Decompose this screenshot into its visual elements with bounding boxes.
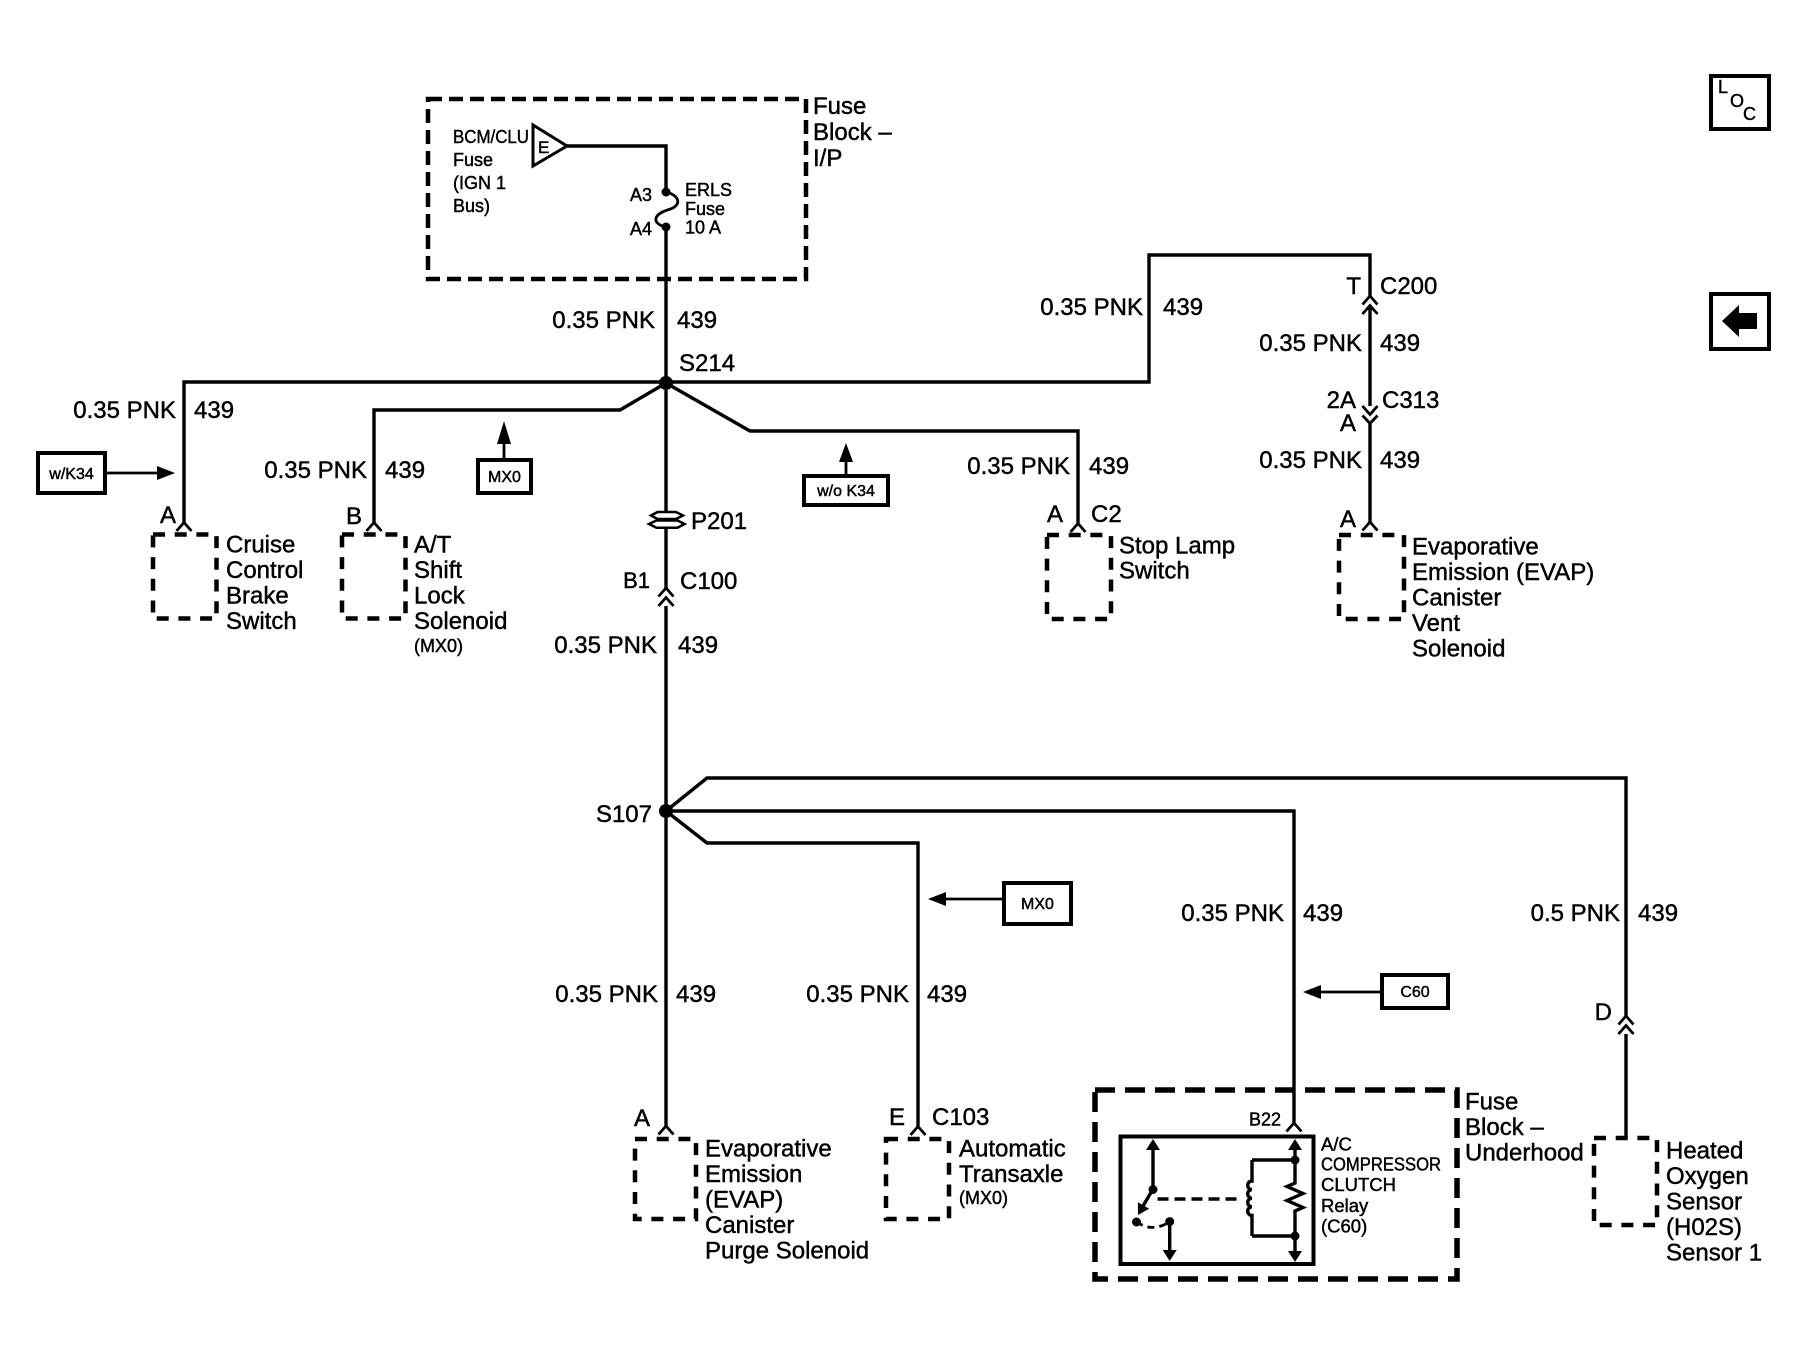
wire label 0.35 PNK 439 (stop lamp branch) xyxy=(967,453,1129,480)
svg-text:439: 439 xyxy=(1089,453,1129,480)
svg-text:L: L xyxy=(1718,77,1728,97)
svg-text:Sensor 1: Sensor 1 xyxy=(1666,1240,1762,1267)
EVAP canister purge solenoid box xyxy=(635,1139,696,1219)
svg-text:B: B xyxy=(346,503,362,530)
svg-text:C103: C103 xyxy=(932,1104,989,1131)
svg-text:Purge Solenoid: Purge Solenoid xyxy=(705,1238,869,1265)
svg-text:Switch: Switch xyxy=(226,608,297,635)
svg-text:Shift: Shift xyxy=(414,557,462,584)
wire C200 to C313 xyxy=(1368,306,1371,406)
wire S214 right to C200 xyxy=(666,255,1370,382)
splice S214 xyxy=(659,350,735,390)
svg-text:D: D xyxy=(1595,999,1612,1026)
svg-text:A: A xyxy=(1047,501,1063,528)
svg-text:439: 439 xyxy=(1638,900,1678,927)
svg-text:B22: B22 xyxy=(1249,1110,1281,1130)
wire P201 to C100 xyxy=(664,528,667,588)
svg-text:Fuse: Fuse xyxy=(1465,1089,1518,1116)
stop lamp switch box xyxy=(1047,535,1111,619)
cruise control brake switch label xyxy=(226,532,303,636)
wire fuse A4 down to S214 xyxy=(664,227,667,381)
svg-text:BCM/CLU: BCM/CLU xyxy=(453,127,529,147)
svg-text:0.35 PNK: 0.35 PNK xyxy=(555,981,658,1008)
svg-text:Block –: Block – xyxy=(813,119,892,146)
svg-text:Transaxle: Transaxle xyxy=(959,1161,1063,1188)
inline connector C200 double chevron xyxy=(1363,296,1378,314)
svg-text:CLUTCH: CLUTCH xyxy=(1321,1174,1396,1195)
svg-text:A/T: A/T xyxy=(414,532,452,559)
pin B label (A/T) xyxy=(346,503,362,530)
svg-text:Emission (EVAP): Emission (EVAP) xyxy=(1412,559,1594,586)
svg-text:0.35 PNK: 0.35 PNK xyxy=(554,632,657,659)
svg-text:I/P: I/P xyxy=(813,145,842,172)
wire S214 down to P201 xyxy=(664,390,667,512)
wire C313 to vent solenoid xyxy=(1368,424,1371,523)
pin A label and connector C2 (stop lamp) xyxy=(1047,501,1122,528)
svg-text:0.35 PNK: 0.35 PNK xyxy=(1040,294,1143,321)
wire label 0.35 PNK 439 (C200-C313) xyxy=(1259,330,1420,357)
svg-text:Oxygen: Oxygen xyxy=(1666,1163,1749,1190)
svg-text:O: O xyxy=(1730,91,1744,111)
pin A label (cruise) xyxy=(160,502,176,529)
relay resistor xyxy=(1287,1139,1303,1262)
svg-text:(MX0): (MX0) xyxy=(414,636,463,656)
connector chevron at stop lamp switch xyxy=(1071,524,1086,533)
svg-text:Evaporative: Evaporative xyxy=(1412,534,1539,561)
wire label 0.5 PNK 439 (H02S branch) xyxy=(1531,900,1678,927)
connector chevron at C103 xyxy=(911,1127,926,1136)
svg-text:ERLS: ERLS xyxy=(685,180,732,200)
svg-text:(MX0): (MX0) xyxy=(959,1188,1008,1208)
stop lamp switch label xyxy=(1119,533,1235,585)
svg-text:Canister: Canister xyxy=(705,1212,794,1239)
relay label xyxy=(1321,1134,1441,1237)
pin A3 label xyxy=(630,185,652,205)
wire label 0.35 PNK 439 (A/T branch) xyxy=(264,457,425,484)
wire label 0.35 PNK 439 (above P201... none) grommet P201 xyxy=(649,508,747,535)
connector chevron at vent solenoid xyxy=(1363,522,1378,531)
svg-text:Stop Lamp: Stop Lamp xyxy=(1119,533,1235,560)
wire label 0.35 PNK 439 (C100-S107) xyxy=(554,632,718,659)
A/C compressor clutch relay box xyxy=(1121,1137,1314,1265)
svg-text:0.35 PNK: 0.35 PNK xyxy=(967,453,1070,480)
wire from triangle to fuse xyxy=(567,146,666,188)
svg-text:Solenoid: Solenoid xyxy=(1412,636,1505,663)
svg-text:C2: C2 xyxy=(1091,501,1122,528)
svg-text:B1: B1 xyxy=(623,568,650,593)
fuse ERLS 10A xyxy=(656,188,678,232)
svg-text:Bus): Bus) xyxy=(453,196,490,216)
svg-text:439: 439 xyxy=(385,457,425,484)
svg-text:w/K34: w/K34 xyxy=(48,466,94,483)
wire D down to H02S sensor xyxy=(1624,1034,1627,1138)
svg-text:C100: C100 xyxy=(680,568,737,595)
pin T label and connector C200 xyxy=(1346,273,1437,300)
svg-text:E: E xyxy=(538,138,549,157)
svg-text:0.35 PNK: 0.35 PNK xyxy=(806,981,909,1008)
C60 tag xyxy=(1303,975,1448,1008)
svg-text:MX0: MX0 xyxy=(488,469,521,486)
heated oxygen sensor label xyxy=(1666,1138,1762,1267)
wire S214 diagonal to A/T shift lock solenoid xyxy=(374,383,666,522)
wire S107 down to EVAP purge solenoid xyxy=(664,811,667,1126)
svg-text:Block –: Block – xyxy=(1465,1114,1544,1141)
LOC page icon xyxy=(1711,76,1769,129)
connector chevron at purge solenoid xyxy=(659,1126,674,1135)
svg-text:COMPRESSOR: COMPRESSOR xyxy=(1321,1154,1441,1175)
svg-text:Heated: Heated xyxy=(1666,1138,1743,1165)
automatic transaxle box xyxy=(886,1139,949,1219)
svg-text:P201: P201 xyxy=(691,508,747,535)
relay coil xyxy=(1248,1160,1295,1236)
svg-text:439: 439 xyxy=(1303,900,1343,927)
svg-text:(IGN 1: (IGN 1 xyxy=(453,173,506,193)
connector chevron at A/T solenoid xyxy=(367,523,382,532)
svg-text:439: 439 xyxy=(1380,330,1420,357)
fuse block underhood label xyxy=(1465,1089,1584,1167)
cruise control brake switch box xyxy=(153,535,217,619)
connector chevron at relay B22 xyxy=(1287,1123,1302,1132)
svg-text:Fuse: Fuse xyxy=(453,150,493,170)
fuse block underhood dashed box xyxy=(1095,1090,1457,1279)
inline connector C313 double chevron down xyxy=(1363,406,1378,424)
svg-text:Fuse: Fuse xyxy=(813,93,866,120)
svg-text:0.35 PNK: 0.35 PNK xyxy=(1259,447,1362,474)
EVAP canister vent solenoid label xyxy=(1412,534,1594,663)
pin E label and connector C103 xyxy=(889,1104,989,1131)
wire label 0.35 PNK 439 (right branch) xyxy=(1040,294,1203,321)
wire S107 diagonal up to H02S branch xyxy=(666,778,1626,1016)
svg-text:(H02S): (H02S) xyxy=(1666,1214,1742,1241)
svg-text:E: E xyxy=(889,1104,905,1131)
wire label 0.35 PNK 439 (above S214) xyxy=(552,307,717,334)
svg-text:A3: A3 xyxy=(630,185,652,205)
pin A label (vent solenoid) xyxy=(1340,506,1356,533)
svg-text:C60: C60 xyxy=(1400,984,1429,1001)
svg-text:T: T xyxy=(1346,273,1361,300)
svg-text:439: 439 xyxy=(678,632,718,659)
svg-text:0.35 PNK: 0.35 PNK xyxy=(73,397,176,424)
connector chevron at cruise switch xyxy=(177,523,192,532)
svg-text:S107: S107 xyxy=(596,801,652,828)
svg-text:C200: C200 xyxy=(1380,273,1437,300)
EVAP canister vent solenoid box xyxy=(1339,535,1404,619)
pin B1 label and connector C100 xyxy=(623,568,737,595)
ERLS fuse label xyxy=(685,180,732,238)
svg-text:Switch: Switch xyxy=(1119,558,1190,585)
back arrow icon xyxy=(1711,294,1769,349)
wire S107 right to A/C relay B22 xyxy=(666,811,1294,1123)
wire S107 diagonal down to C103 xyxy=(666,811,918,1126)
svg-text:Emission: Emission xyxy=(705,1161,802,1188)
svg-text:Automatic: Automatic xyxy=(959,1136,1066,1163)
svg-text:439: 439 xyxy=(927,981,967,1008)
svg-text:Relay: Relay xyxy=(1321,1195,1369,1216)
heated oxygen sensor box xyxy=(1594,1138,1657,1225)
pin B22 label xyxy=(1249,1110,1281,1130)
svg-text:439: 439 xyxy=(677,307,717,334)
w/K34 tag xyxy=(38,453,175,493)
wire label 0.35 PNK 439 (relay branch) xyxy=(1181,900,1343,927)
wire label 0.35 PNK 439 (vent branch) xyxy=(1259,447,1420,474)
A/T shift lock solenoid box xyxy=(342,535,406,619)
svg-text:(EVAP): (EVAP) xyxy=(705,1187,783,1214)
MX0 tag (C103 branch) xyxy=(928,883,1071,924)
A/T shift lock solenoid label xyxy=(414,532,507,657)
svg-text:S214: S214 xyxy=(679,350,735,377)
svg-text:Cruise: Cruise xyxy=(226,532,295,559)
automatic transaxle label xyxy=(959,1136,1066,1209)
wire S214 diagonal to stop lamp switch xyxy=(666,383,1078,523)
svg-text:A/C: A/C xyxy=(1321,1134,1352,1155)
wire label 0.35 PNK 439 (purge branch) xyxy=(555,981,716,1008)
svg-text:439: 439 xyxy=(194,397,234,424)
svg-text:10 A: 10 A xyxy=(685,218,721,238)
svg-text:C313: C313 xyxy=(1382,387,1439,414)
pin A4 label xyxy=(630,219,652,239)
inline connector double chevron (pin D) xyxy=(1619,1016,1634,1034)
svg-text:0.35 PNK: 0.35 PNK xyxy=(1181,900,1284,927)
svg-text:MX0: MX0 xyxy=(1021,896,1054,913)
relay switch common arm xyxy=(1138,1139,1160,1215)
svg-text:Sensor: Sensor xyxy=(1666,1189,1742,1216)
relay actuation dashed link xyxy=(1158,1197,1239,1200)
svg-text:0.35 PNK: 0.35 PNK xyxy=(1259,330,1362,357)
pin D label xyxy=(1595,999,1612,1026)
triangle source symbol E xyxy=(533,125,567,166)
svg-text:Evaporative: Evaporative xyxy=(705,1136,832,1163)
EVAP canister purge solenoid label xyxy=(705,1136,869,1265)
pin 2A label and connector C313 xyxy=(1327,387,1440,414)
svg-text:Fuse: Fuse xyxy=(685,199,725,219)
svg-text:C: C xyxy=(1743,104,1756,124)
splice S107 xyxy=(596,801,673,828)
svg-text:439: 439 xyxy=(676,981,716,1008)
wire S214 left to cruise switch xyxy=(184,382,666,522)
svg-text:439: 439 xyxy=(1380,447,1420,474)
svg-text:Canister: Canister xyxy=(1412,585,1501,612)
MX0 tag (A/T branch) xyxy=(478,421,531,493)
svg-text:Solenoid: Solenoid xyxy=(414,608,507,635)
svg-text:Vent: Vent xyxy=(1412,610,1460,637)
svg-text:Control: Control xyxy=(226,557,303,584)
wire label 0.35 PNK 439 (C103 branch) xyxy=(806,981,967,1008)
w/o K34 tag xyxy=(804,443,888,505)
svg-text:Underhood: Underhood xyxy=(1465,1140,1584,1167)
inline connector C100 double chevron xyxy=(659,588,674,606)
relay switch contacts xyxy=(1132,1217,1177,1261)
svg-text:Brake: Brake xyxy=(226,583,289,610)
svg-text:A: A xyxy=(1340,506,1356,533)
pin A label (purge) xyxy=(634,1105,650,1132)
svg-text:w/o K34: w/o K34 xyxy=(816,483,875,500)
wire label 0.35 PNK 439 (left branch) xyxy=(73,397,234,424)
svg-text:A: A xyxy=(1340,410,1356,437)
svg-text:0.5 PNK: 0.5 PNK xyxy=(1531,900,1620,927)
svg-text:A4: A4 xyxy=(630,219,652,239)
svg-text:439: 439 xyxy=(1163,294,1203,321)
wire C100 down to S107 xyxy=(664,606,667,811)
svg-text:A: A xyxy=(160,502,176,529)
svg-text:Lock: Lock xyxy=(414,583,466,610)
fuse block I/P dashed box xyxy=(428,99,806,279)
svg-text:0.35 PNK: 0.35 PNK xyxy=(264,457,367,484)
svg-text:A: A xyxy=(634,1105,650,1132)
pin A label (C313 lower) xyxy=(1340,410,1356,437)
BCM/CLU fuse source label xyxy=(453,127,529,216)
svg-text:0.35 PNK: 0.35 PNK xyxy=(552,307,655,334)
svg-text:(C60): (C60) xyxy=(1321,1216,1367,1237)
fuse block I/P label xyxy=(813,93,892,172)
